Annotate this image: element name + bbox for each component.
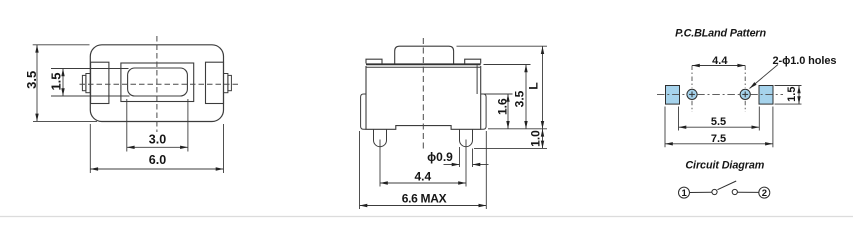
switch arm [718,181,737,190]
body outline (top view) [90,45,223,122]
cover left ear [366,59,382,63]
svg-text:4.4: 4.4 [414,170,431,184]
vertical centerline (left view) [156,36,158,132]
svg-text:3.5: 3.5 [24,71,39,89]
right hole vertical centerline [744,66,746,113]
dimension 6.0 (body width) [90,124,223,173]
right hole (blue circle) [740,89,750,99]
dimension 6.6 MAX (overall width) [360,131,487,209]
left side bump [361,94,366,129]
wire from terminal 1 to contact [690,191,712,193]
dimension 1.5 (button height) [49,69,130,97]
left land pad (blue square) [666,86,680,105]
left hole (blue circle) [687,89,697,99]
dimension 1.0 (standoff) [474,129,547,149]
horizontal centerline (left view) [80,83,239,85]
svg-text:5.5: 5.5 [711,116,726,128]
body outline (front view, with stepped bottom) [366,66,481,129]
svg-text:3.0: 3.0 [149,133,166,147]
dimension 7.5 (pad outer spacing) [665,107,773,148]
svg-text:P.C.BLand Pattern: P.C.BLand Pattern [675,27,766,39]
right land pad (blue square) [759,86,773,105]
left leg (round pin) [374,129,387,146]
horizontal centerline (land pattern) [657,93,783,95]
cover bottom line [367,66,481,68]
svg-text:L: L [527,82,541,89]
terminal 2 circle [759,187,770,199]
right pin stub [224,74,228,93]
dimension 4.4 (hole spacing) [692,55,745,67]
wire from contact to terminal 2 [737,191,759,193]
right pin tip [228,75,232,90]
svg-text:7.5: 7.5 [711,133,726,145]
left hole cross mark [689,92,695,98]
cover right ear [465,59,481,63]
svg-text:6.0: 6.0 [149,153,166,167]
svg-text:ϕ0.9: ϕ0.9 [427,150,453,164]
left hole vertical centerline [691,66,693,113]
right contact (small circle) [732,189,737,194]
svg-text:1.5: 1.5 [786,87,798,102]
dimension 1.6 (bump top to seating plane) [481,94,513,129]
svg-text:1.6: 1.6 [495,98,509,115]
page divider light line [0,216,853,218]
left pin stub [86,74,90,93]
dimension 1.5 (pad height) [775,86,802,105]
dimension 3.5 (left view overall height) [24,45,97,122]
dimension 3.0 (button width) [127,99,188,152]
right side bump [481,94,486,129]
svg-text:1.0: 1.0 [529,130,543,147]
left contact (small circle) [712,189,717,194]
svg-text:3.5: 3.5 [513,90,527,107]
svg-text:6.6 MAX: 6.6 MAX [402,191,447,205]
svg-text:2: 2 [762,188,767,199]
terminal 1 circle [679,187,690,199]
stem (push button) [395,46,454,63]
label 2-phi1.0 holes with leader arrow [750,55,837,89]
button (rounded rectangle) [128,68,188,96]
right leg (round pin) [460,129,473,146]
left contact tab [91,62,109,103]
dimension 5.5 (pad inner spacing) [679,107,760,131]
vertical centerline (front view) [422,38,424,152]
seating plane extension line [488,128,547,130]
svg-text:1: 1 [682,188,688,199]
dimension 3.5 (cover to seating plane) [484,65,531,129]
dimension 4.4 (leg spacing, front view) [380,140,466,187]
svg-text:1.5: 1.5 [49,72,64,90]
svg-text:2-ϕ1.0 holes: 2-ϕ1.0 holes [773,55,837,67]
title: Circuit Diagram [685,159,764,171]
cover top plate (thick line) [366,63,481,65]
dimension phi 0.9 (leg diameter) [427,147,488,167]
svg-text:4.4: 4.4 [712,55,728,67]
title: P.C.B Land Pattern [675,27,766,39]
inner frame rectangle [121,63,194,102]
cover side seam line (right) [476,65,478,94]
svg-text:Circuit Diagram: Circuit Diagram [685,159,764,171]
right hole cross mark [742,92,748,98]
dimension L (stem top to seating plane) [457,46,548,129]
right contact tab [206,62,224,103]
left pin tip [82,75,86,90]
